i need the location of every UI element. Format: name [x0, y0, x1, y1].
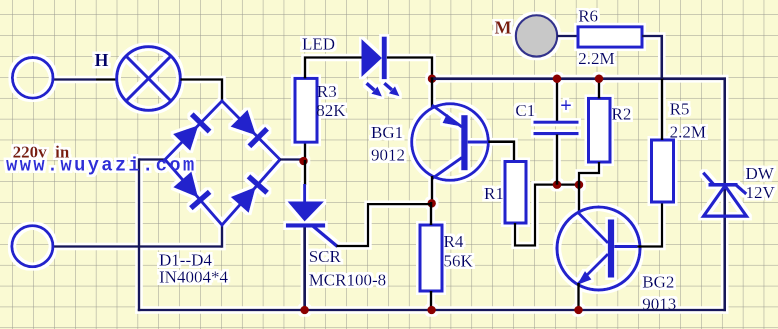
- wire: R3 bottom to node: [304, 142, 307, 162]
- node: collector/gate/R4 junction dot: [427, 199, 436, 208]
- svg-text:IN4004*4: IN4004*4: [159, 268, 228, 287]
- wire: R3 top to LED anode: [305, 58, 362, 79]
- wire: R5 top to rail: [661, 77, 664, 140]
- transistor BG1 9012 PNP: [412, 104, 489, 181]
- diode D1 upper-left: [173, 112, 212, 151]
- node: bridge DC+ junction dot: [299, 157, 308, 166]
- terminal: top AC input: [12, 58, 53, 99]
- svg-text:9013: 9013: [642, 295, 676, 314]
- wire: bottom AC terminal to bridge: [52, 245, 222, 248]
- wire: lamp to bridge top corner: [181, 80, 223, 102]
- wire: BG1 base to R1: [488, 142, 514, 162]
- wire: M to R6: [557, 35, 578, 38]
- svg-text:R1: R1: [484, 184, 504, 203]
- svg-text:SCR: SCR: [309, 247, 342, 266]
- svg-text:+: +: [560, 93, 572, 117]
- diode D2 upper-right: [230, 109, 269, 148]
- wire: R1 bottom jog to middle node: [515, 185, 580, 246]
- svg-text:H: H: [95, 50, 109, 70]
- wire: R6 right to rail: [642, 36, 662, 79]
- touch plate M: [516, 15, 557, 56]
- svg-text:BG1: BG1: [371, 123, 403, 142]
- SCR MCR100-8: [303, 184, 306, 202]
- node: R4 ground junction dot: [427, 306, 436, 315]
- svg-text:R4: R4: [444, 232, 464, 251]
- wire: BG2 emitter to ground rail: [577, 283, 580, 311]
- wire: bridge left corner to DC- vertical: [139, 158, 166, 161]
- resistor R2: [589, 98, 611, 162]
- svg-text:M: M: [495, 17, 512, 37]
- svg-text:9012: 9012: [371, 146, 405, 165]
- node: LED/BG1 emitter junction dot: [428, 74, 437, 83]
- wire: BG2 base to R5 bottom: [638, 202, 663, 247]
- svg-text:56K: 56K: [444, 252, 474, 271]
- svg-text:MCR100-8: MCR100-8: [309, 271, 386, 290]
- svg-text:DW: DW: [746, 164, 775, 183]
- svg-text:R6: R6: [578, 6, 598, 25]
- svg-text:82K: 82K: [316, 101, 346, 120]
- wire: node to R4 top: [430, 202, 433, 225]
- transistor BG2 9013 NPN: [557, 207, 640, 290]
- wire: SCR anode from node: [304, 160, 307, 185]
- capacitor C1: [556, 77, 559, 121]
- svg-text:LED: LED: [302, 35, 335, 54]
- resistor R6 2.2M: [578, 27, 642, 47]
- wire: DC- left vertical: [138, 158, 141, 311]
- node: C1- junction dot: [553, 180, 562, 189]
- wire: rail drop to DW and ground: [723, 77, 726, 311]
- diode D4 lower-right: [230, 174, 269, 213]
- node: C1+ rail junction dot: [553, 74, 562, 83]
- svg-text:R5: R5: [670, 100, 690, 119]
- wire: bridge right corner to node: [280, 158, 305, 161]
- node: BG2 emitter ground dot: [574, 306, 583, 315]
- terminal: bottom AC input: [12, 226, 53, 267]
- wire: bottom ground rail: [138, 309, 726, 312]
- svg-text:2.2M: 2.2M: [670, 123, 706, 142]
- resistor R1: [505, 162, 526, 224]
- wire: to lamp (black part): [96, 78, 118, 81]
- svg-text:12V: 12V: [746, 183, 776, 202]
- wire: BG1 collector to gate node: [431, 176, 434, 205]
- wire: rail to R2 top: [598, 77, 601, 98]
- resistor R4 56K: [420, 225, 442, 291]
- wire: LED cathode to emitter node: [387, 58, 432, 79]
- node: R2 rail junction dot: [595, 74, 604, 83]
- zener diode DW 12V: [703, 173, 746, 217]
- wire: bridge bottom corner drop: [221, 225, 224, 248]
- LED light arrows: [367, 83, 400, 96]
- diode D3 lower-left: [173, 171, 212, 210]
- svg-text:R2: R2: [612, 105, 632, 124]
- lamp H: [117, 47, 181, 111]
- svg-text:www.wuyazi.com: www.wuyazi.com: [6, 155, 196, 177]
- SCR gate lead: [312, 225, 338, 247]
- wire: collector node into BG2: [578, 183, 581, 214]
- bridge rectifier diamond D1--D4: [165, 101, 280, 225]
- wire: top AC terminal to lamp (navy part): [52, 78, 96, 81]
- wire: positive rail: [431, 77, 726, 80]
- node: BG2 collector junction dot: [575, 180, 584, 189]
- resistor R3 82K: [295, 78, 317, 142]
- resistor R5 2.2M: [652, 140, 674, 202]
- LED diode: [362, 39, 383, 77]
- svg-text:R3: R3: [317, 82, 337, 101]
- wire: gate to collector node: [337, 204, 432, 246]
- wire: R2 bottom jog to collector node: [579, 162, 599, 185]
- svg-text:BG2: BG2: [642, 273, 674, 292]
- svg-text:C1: C1: [515, 101, 535, 120]
- node: SCR cathode on ground rail dot: [300, 306, 309, 315]
- svg-text:2.2M: 2.2M: [578, 49, 614, 68]
- wire: R4 bottom to ground rail: [430, 291, 433, 311]
- wire: emitter drop into BG1: [431, 77, 434, 108]
